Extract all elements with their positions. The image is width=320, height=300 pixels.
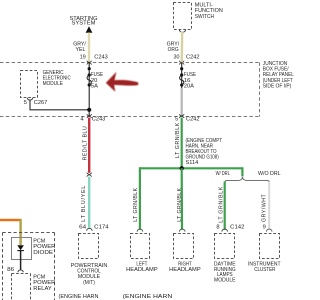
svg-text:DIODE: DIODE — [33, 250, 53, 256]
svg-text:20A: 20A — [184, 83, 195, 89]
svg-text:5A: 5A — [91, 83, 99, 89]
svg-text:C242: C242 — [186, 117, 200, 123]
generic electronic module label — [43, 70, 71, 87]
wire LT GRN/BLK to right headlamp — [181, 168, 184, 230]
fuse F20 element — [87, 75, 91, 85]
multi-function switch label — [195, 2, 223, 20]
diode D1 symbol — [17, 245, 24, 250]
svg-text:(M/T): (M/T) — [83, 280, 95, 286]
svg-text:(ENGINE HARN: (ENGINE HARN — [59, 294, 99, 300]
red annotation arrow — [106, 72, 139, 92]
wire LT GRN/BLK to left headlamp — [139, 167, 141, 230]
connector C242 pin 5 symbol — [179, 114, 184, 118]
svg-text:C267: C267 — [34, 100, 48, 106]
svg-text:C142: C142 — [230, 225, 244, 231]
relay connector symbol — [18, 270, 23, 272]
starting system arrow — [86, 26, 93, 33]
svg-text:W/ DRL: W/ DRL — [216, 171, 230, 177]
wire GRY/WHT to instrument cluster — [268, 182, 270, 230]
label GRY/YEL — [73, 41, 86, 53]
splice S114 note — [186, 138, 223, 166]
svg-text:LT GRN/BLK: LT GRN/BLK — [177, 187, 183, 221]
svg-text:HEADLAMP: HEADLAMP — [169, 267, 201, 273]
junction box label — [263, 61, 294, 90]
fuse F20 value label — [91, 72, 104, 89]
svg-text:LT GRN/BLK: LT GRN/BLK — [175, 122, 181, 158]
multi-function switch box — [174, 3, 192, 30]
svg-text:19: 19 — [80, 54, 86, 60]
PCM power diode box — [12, 238, 32, 260]
svg-text:C243: C243 — [92, 117, 106, 123]
connector C243 pin 19 symbol — [87, 61, 92, 65]
wire RED/LT BLU — [88, 118, 90, 173]
svg-text:30: 30 — [174, 54, 180, 60]
PCM power diode label — [33, 238, 55, 256]
svg-text:8: 8 — [216, 225, 219, 231]
svg-text:C174: C174 — [94, 225, 109, 231]
svg-text:MODULE: MODULE — [214, 278, 236, 284]
wire diode to relay — [20, 251, 22, 270]
svg-text:5: 5 — [24, 100, 27, 106]
svg-text:9: 9 — [263, 225, 266, 231]
multi-function switch connector symbol — [179, 30, 185, 33]
left headlamp label — [126, 261, 158, 273]
svg-text:S114: S114 — [186, 160, 199, 166]
right headlamp box — [174, 234, 194, 259]
svg-text:C243: C243 — [94, 54, 108, 60]
options bracket W/ DRL vs W/O DRL — [225, 177, 270, 183]
svg-text:HEADLAMP: HEADLAMP — [126, 267, 158, 273]
svg-text:86: 86 — [7, 267, 14, 273]
svg-text:C242: C242 — [186, 54, 200, 60]
junction box boundary top — [0, 62, 260, 64]
svg-text:LT GRN/BLK: LT GRN/BLK — [218, 186, 224, 223]
wire LT GRN/BLK to DRL module — [224, 182, 226, 230]
wire GRY/ORG — [180, 32, 183, 63]
junction box boundary bottom — [0, 116, 260, 118]
splice S114 dot — [180, 166, 184, 170]
generic electronic module box — [21, 71, 38, 98]
connector C242 pin 30 symbol — [179, 61, 184, 65]
PCM power diode outer dashed box — [3, 233, 55, 300]
wire fuse F20 column — [88, 63, 90, 117]
svg-text:RED/LT BLU: RED/LT BLU — [82, 126, 88, 161]
connector C267 symbol — [27, 98, 33, 100]
powertrain control module box — [79, 234, 99, 259]
svg-text:LT BLU/YEL: LT BLU/YEL — [81, 185, 87, 222]
fuse F16 value label — [184, 72, 197, 89]
svg-text:5: 5 — [175, 117, 178, 123]
svg-text:GRY/WHT: GRY/WHT — [262, 193, 268, 222]
wire GRY below fuse F16 — [181, 88, 183, 116]
left headlamp connector — [137, 229, 143, 231]
svg-text:LT GRN/BLK: LT GRN/BLK — [133, 187, 139, 221]
wire ORG/YEL vertical — [19, 219, 21, 245]
svg-text:CLUSTER: CLUSTER — [254, 267, 275, 273]
connector C174 symbol — [87, 228, 93, 230]
powertrain control module label — [71, 263, 108, 286]
instrument cluster connector — [266, 229, 272, 232]
fuse F20 terminals — [88, 67, 91, 70]
daytime running lamps module label — [214, 261, 236, 283]
inline connector red to teal — [87, 173, 92, 177]
svg-text:RELAY: RELAY — [33, 286, 52, 292]
svg-text:ORG: ORG — [168, 47, 179, 53]
junction dot GEM / fuse F20 — [87, 108, 91, 112]
wire LT BLU/YEL — [88, 177, 90, 228]
connector C142 symbol — [222, 229, 228, 232]
node STARTING SYSTEM — [70, 16, 98, 27]
svg-text:SWITCH: SWITCH — [195, 14, 215, 20]
fuse F16 element — [180, 75, 184, 85]
wire fuse F16 column — [181, 63, 183, 91]
instrument cluster box — [260, 234, 280, 259]
right headlamp connector — [179, 229, 185, 232]
wire ORG — [0, 219, 21, 221]
wire LT GRN/BLK main — [181, 118, 183, 169]
svg-text:(ENGINE HARN: (ENGINE HARN — [123, 294, 173, 300]
instrument cluster label — [248, 261, 281, 272]
svg-text:W/O DRL: W/O DRL — [258, 171, 281, 177]
wire GRY/YEL — [88, 33, 90, 63]
wire GEM to fuse junction — [30, 100, 89, 110]
daytime running lamps module box — [215, 234, 235, 259]
PCM power relay box — [12, 274, 31, 300]
svg-text:SYSTEM: SYSTEM — [72, 21, 96, 27]
left headlamp box — [131, 234, 150, 259]
label GRY/ORG — [167, 41, 180, 53]
fuse F16 terminals — [180, 67, 183, 70]
wire LT GRN/BLK bus — [140, 167, 243, 169]
svg-text:YEL: YEL — [76, 47, 86, 53]
svg-text:64: 64 — [79, 225, 86, 231]
svg-text:SIDE OF I/P): SIDE OF I/P) — [263, 84, 292, 90]
svg-text:MODULE: MODULE — [43, 81, 64, 87]
connector C243 pin 4 symbol — [87, 114, 92, 118]
right headlamp label — [169, 261, 201, 273]
wire LT GRN/BLK elbow to options — [241, 168, 242, 176]
junction box boundary right — [259, 63, 261, 117]
PCM power relay label — [33, 274, 55, 292]
svg-text:4: 4 — [80, 117, 83, 123]
